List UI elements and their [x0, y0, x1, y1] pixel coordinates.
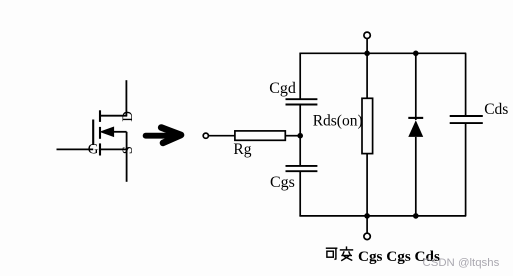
wire right branch lower (Cds to bottom rail)	[465, 123, 467, 216]
wire top rail	[299, 52, 466, 54]
wire drain terminal	[125, 80, 127, 116]
resistor Rds(on)	[362, 98, 373, 153]
channel bar segment middle	[99, 127, 101, 139]
wire source lead	[99, 148, 127, 150]
wire left branch upper (node to Cgd)	[299, 105, 301, 136]
node top rail / diode (junction dot)	[413, 51, 419, 57]
wire input to Rg	[209, 135, 235, 137]
node top rail / Rds (junction dot)	[364, 51, 370, 57]
channel bar segment top	[99, 110, 101, 122]
node gate (junction dot)	[297, 133, 303, 139]
svg-text:Cds: Cds	[484, 101, 508, 118]
svg-text:CSDN @ltqshs: CSDN @ltqshs	[423, 257, 500, 269]
capacitor Cgs	[286, 166, 318, 171]
svg-text:Rg: Rg	[233, 141, 251, 158]
capacitor Cds	[450, 116, 483, 123]
wire Cgs to bottom rail	[299, 171, 301, 216]
terminal gate input	[203, 133, 208, 138]
wire left branch lower (node to Cgs)	[299, 136, 301, 166]
body arrow	[101, 127, 114, 136]
svg-text:Cgs: Cgs	[270, 174, 295, 191]
wire diode branch lower	[415, 137, 417, 216]
capacitor Cgd	[286, 99, 318, 104]
svg-text:Cgd: Cgd	[269, 80, 296, 97]
wire source terminal	[126, 132, 128, 182]
wire bottom terminal stub	[366, 216, 368, 233]
wire top terminal stub	[366, 39, 368, 54]
node bottom rail / Rds (junction dot)	[364, 213, 370, 219]
wire gate lead	[57, 148, 94, 150]
wire Cgd to top rail	[299, 53, 301, 99]
terminal source (bottom)	[364, 233, 370, 239]
arrow (transformation)	[146, 128, 181, 143]
gate plate	[92, 120, 94, 146]
wire Rg to node	[285, 135, 300, 137]
resistor Rg	[235, 131, 285, 140]
wire Rds to bottom rail	[366, 154, 368, 216]
wire drain lead	[100, 115, 127, 117]
svg-text:Rds(on): Rds(on)	[313, 113, 363, 130]
wire diode branch upper	[415, 53, 417, 120]
wire right branch upper (top rail to Cds)	[465, 53, 467, 116]
svg-text:G: G	[88, 142, 99, 158]
terminal drain (top)	[364, 32, 370, 38]
wire body lead	[114, 131, 127, 133]
node bottom rail / diode (junction dot)	[413, 213, 419, 219]
channel bar segment bottom	[99, 143, 101, 155]
svg-text:S: S	[120, 146, 136, 154]
svg-text:D: D	[120, 111, 136, 122]
caption 可变 (hand-drawn glyphs)	[326, 246, 353, 260]
wire top rail to Rds	[366, 53, 368, 98]
transistor Q1 (MOSFET symbol)	[57, 80, 128, 182]
diode D1 (body diode)	[408, 118, 423, 137]
wire bottom rail	[299, 215, 466, 217]
